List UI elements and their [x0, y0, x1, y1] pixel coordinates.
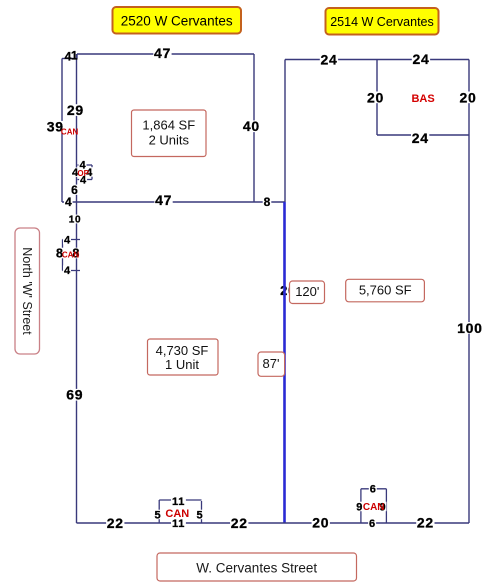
- wall bottom edge 2520 bldg: [62, 201, 254, 203]
- bracket CAN-west bottom: [63, 270, 81, 272]
- wall right edge 2514 (100): [468, 60, 470, 524]
- bracket CAN-west top: [63, 239, 81, 241]
- wall shared thick (120'): [283, 202, 286, 523]
- svg-text:40: 40: [243, 118, 260, 134]
- dim 4 OP top: [79, 160, 87, 172]
- bracket CAN-south-2 right: [385, 489, 387, 523]
- dim 22 a: [106, 515, 124, 531]
- porch OP dash right-a: [91, 165, 93, 170]
- svg-text:47: 47: [154, 45, 171, 61]
- dim 40: [242, 118, 260, 134]
- dim 29: [66, 102, 84, 118]
- svg-text:4: 4: [64, 265, 71, 277]
- dim 1 top jog: [71, 49, 78, 63]
- wall top edge 2520 bldg: [77, 53, 254, 55]
- dim 20 mid (under 120' box): [279, 283, 296, 298]
- svg-text:W. Cervantes Street: W. Cervantes Street: [196, 560, 317, 575]
- svg-text:24: 24: [412, 130, 429, 146]
- dim 4 OP right: [85, 167, 93, 179]
- svg-text:69: 69: [66, 387, 83, 403]
- svg-text:11: 11: [172, 496, 185, 508]
- dim 69: [66, 387, 84, 403]
- dim 10 left: [68, 215, 82, 226]
- wall 1ft jog: [76, 54, 78, 59]
- dim 24 top-left: [320, 52, 338, 68]
- dim 47 bottom: [154, 192, 172, 208]
- porch OP dash top-b: [84, 164, 92, 166]
- svg-text:24: 24: [413, 51, 430, 67]
- bracket CAN-south-2 top: [361, 488, 387, 490]
- bracket CAN-south-1 right: [201, 501, 203, 523]
- svg-text:4: 4: [65, 195, 72, 209]
- svg-text:CAN: CAN: [62, 251, 80, 260]
- wall top edge 2514 bldg: [285, 59, 469, 61]
- svg-text:1: 1: [71, 49, 78, 63]
- svg-text:24: 24: [321, 52, 338, 68]
- dim 8 connector: [263, 195, 272, 209]
- wall left edge 2514 upper: [284, 60, 286, 203]
- dim 22 c: [416, 514, 434, 530]
- dim 11 CAN-south-1 bottom: [171, 518, 186, 530]
- dim 47 top: [153, 45, 171, 61]
- dim 11 CAN-south-1 top: [171, 496, 186, 508]
- bracket CAN-west left: [62, 240, 64, 271]
- svg-text:6: 6: [369, 518, 375, 530]
- porch OP dash right-b: [91, 173, 93, 180]
- svg-text:8: 8: [264, 195, 271, 209]
- svg-text:20: 20: [460, 89, 477, 105]
- svg-text:4,730 SF: 4,730 SF: [156, 343, 209, 358]
- svg-text:6: 6: [71, 183, 78, 197]
- label box W Cervantes Street: [157, 553, 357, 581]
- label box 87ft: [258, 352, 285, 376]
- svg-text:North 'W' Street: North 'W' Street: [20, 247, 34, 335]
- wall BAS inner vertical (20): [376, 60, 378, 136]
- dim 20 BAS-left: [366, 89, 384, 105]
- dim 6 left: [70, 183, 79, 197]
- dim 4 CAN-west bottom: [63, 265, 71, 277]
- dim 4 bottom-left: [64, 195, 73, 209]
- svg-text:CAN: CAN: [165, 508, 189, 520]
- dim 9 CAN-south-2 right: [379, 501, 387, 513]
- dim 22 b: [230, 515, 248, 531]
- label box 2520 W Cervantes: [113, 7, 242, 34]
- dim 6 CAN-south-2 top: [369, 483, 377, 495]
- bracket CAN-south-2 left: [360, 489, 362, 523]
- dim 9 CAN-south-2 left: [355, 501, 363, 513]
- label box 4730 SF: [148, 339, 219, 375]
- svg-text:10: 10: [69, 215, 82, 226]
- dim 24 top-right: [412, 51, 430, 67]
- svg-text:1,864 SF: 1,864 SF: [142, 118, 195, 133]
- dim 39: [46, 119, 64, 135]
- wall right edge 2520 bldg (40): [253, 54, 255, 202]
- dim 4 CAN-west top: [63, 235, 71, 247]
- wall street-side bottom: [77, 522, 470, 524]
- wall connector (8): [254, 201, 285, 203]
- svg-text:5: 5: [155, 509, 161, 521]
- label box 120ft: [290, 281, 325, 304]
- svg-text:CAN: CAN: [61, 128, 79, 137]
- dim 6 CAN-south-2 bottom: [368, 518, 376, 530]
- svg-text:2520 W Cervantes: 2520 W Cervantes: [121, 14, 233, 29]
- wall inner left / 4730 left: [76, 54, 78, 523]
- svg-text:OP: OP: [77, 169, 89, 178]
- dim 4 top jog: [65, 50, 72, 64]
- porch OP dash bottom-a: [78, 179, 81, 181]
- svg-text:87': 87': [263, 356, 280, 371]
- svg-text:5: 5: [196, 509, 202, 521]
- bracket CAN-south-1 left: [158, 500, 160, 523]
- porch OP dash top-a: [78, 164, 81, 166]
- dim 4 OP left: [71, 167, 79, 179]
- svg-text:47: 47: [155, 192, 172, 208]
- svg-text:CAN: CAN: [363, 502, 385, 513]
- dim 8 CAN-west right: [71, 247, 80, 261]
- svg-text:22: 22: [107, 515, 124, 531]
- svg-text:20: 20: [312, 514, 329, 530]
- dim 4 OP bottom: [79, 174, 87, 186]
- svg-text:5,760 SF: 5,760 SF: [359, 282, 412, 297]
- wall left outer (39): [61, 59, 63, 203]
- svg-text:6: 6: [370, 483, 376, 495]
- dim 8 CAN-west left: [55, 247, 64, 261]
- svg-text:22: 22: [417, 514, 434, 530]
- svg-text:1 Unit: 1 Unit: [165, 357, 199, 372]
- svg-text:2514 W Cervantes: 2514 W Cervantes: [330, 15, 434, 29]
- wall 4ft jog: [62, 58, 77, 60]
- porch OP dash bottom-b: [85, 179, 93, 181]
- dim 5 CAN-south-1 right: [196, 509, 204, 521]
- svg-text:22: 22: [231, 515, 248, 531]
- svg-text:4: 4: [64, 235, 71, 247]
- svg-text:20: 20: [367, 89, 384, 105]
- dim 100: [456, 320, 483, 336]
- wall BAS inner horizontal (24): [377, 134, 469, 136]
- dim 20 south: [312, 514, 330, 530]
- svg-text:120': 120': [295, 284, 319, 299]
- svg-text:100: 100: [457, 320, 482, 336]
- svg-text:2 Units: 2 Units: [149, 133, 190, 148]
- label box 2514 W Cervantes: [326, 8, 439, 35]
- dim 24 BAS-bottom: [411, 130, 429, 146]
- label box 1864 SF: [132, 110, 207, 157]
- svg-text:29: 29: [67, 102, 84, 118]
- bracket CAN-south-1 top: [159, 499, 201, 501]
- svg-text:BAS: BAS: [411, 93, 434, 105]
- svg-text:9: 9: [356, 501, 362, 513]
- dim 20 BAS-right: [459, 89, 477, 105]
- label box 5760 SF: [346, 279, 425, 302]
- dim 5 CAN-south-1 left: [154, 509, 162, 521]
- label box North W Street: [15, 228, 40, 354]
